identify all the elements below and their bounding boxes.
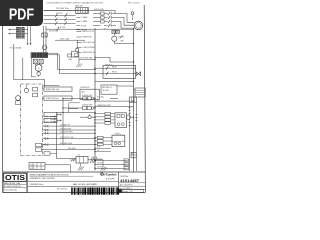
car wire row 2: [59, 73, 95, 74]
contactor feed wire 1: [93, 13, 101, 15]
field wire 112: [62, 112, 95, 113]
title divider 1: [28, 180, 119, 182]
eComfort logo: [100, 172, 116, 176]
svg-text:MGR BL MGR: MGR BL MGR: [94, 9, 105, 11]
main switch label: [75, 4, 83, 7]
svg-text:WIRING DIAGRAM FOR MICROTEC MT: WIRING DIAGRAM FOR MICROTEC MT3133: [30, 173, 69, 176]
wire row 86: [117, 85, 134, 87]
svg-text:HL2: HL2: [97, 99, 100, 101]
svg-text:SPARE WIRE GRP 1: SPARE WIRE GRP 1: [97, 104, 111, 107]
tacho generator: [37, 72, 41, 76]
machine fuse FM2: [39, 59, 43, 64]
drive input 63: [94, 119, 115, 122]
terminal strip labels TB1: [77, 12, 88, 31]
unit row drawn: [119, 189, 144, 193]
trunk terminal ticks: [129, 108, 138, 126]
drive input 61: [94, 112, 115, 115]
svg-text:L3 MAIN: L3 MAIN: [81, 20, 88, 23]
svg-text:OTIS ELEVATOR COMPANY WIRING D: OTIS ELEVATOR COMPANY WIRING DIAGRAM MT3…: [46, 2, 104, 5]
fuse F2: [55, 18, 57, 22]
controller row PB: [94, 66, 135, 70]
machine wires: [32, 58, 42, 77]
governor GOV: [15, 96, 20, 105]
svg-text:PE GND: PE GND: [81, 29, 88, 31]
PDF badge: [0, 0, 43, 26]
drive output device: [126, 115, 134, 119]
supply label 3PH 380V 50Hz: [56, 8, 69, 10]
cabinet contact block: [33, 87, 38, 96]
brake feed wire: [113, 25, 117, 27]
svg-text:PDF: PDF: [9, 7, 34, 24]
unit no label: [120, 176, 129, 178]
svg-text:OTIS: OTIS: [5, 173, 25, 182]
svg-text:TG: TG: [78, 154, 81, 156]
brake wires: [114, 41, 134, 44]
unit divider b: [119, 185, 146, 187]
svg-text:6 STOPS: 6 STOPS: [106, 178, 115, 180]
routing wire A: [14, 44, 45, 87]
brake coil BK: [112, 33, 117, 41]
svg-text:53 CPI: 53 CPI: [97, 167, 102, 169]
svg-text:TRV-L LOAD: TRV-L LOAD: [60, 37, 70, 40]
cabinet tap DW: [44, 116, 56, 119]
hall wire row a: [97, 96, 118, 99]
stops text: [106, 178, 115, 180]
door wire DC: [94, 140, 112, 143]
svg-text:DCL DOOR CLOSE: DCL DOOR CLOSE: [60, 137, 73, 139]
overload OL1: [101, 12, 105, 15]
transformer feed wires: [27, 26, 31, 45]
svg-text:Q1: Q1: [66, 13, 68, 15]
svg-text:COL CAR TOP: COL CAR TOP: [60, 123, 70, 126]
svg-text:SPARE WIRE GP: SPARE WIRE GP: [83, 51, 96, 54]
tacho input slashes: [70, 158, 76, 161]
routing wire B: [22, 58, 24, 80]
step wire: [94, 57, 134, 63]
aux relay box K3: [44, 118, 61, 122]
aux supply wire: [46, 26, 134, 31]
svg-text:MRO CAR LIGHT: MRO CAR LIGHT: [83, 41, 96, 44]
transformer TR primary: [16, 27, 19, 38]
svg-text:LOAD W SENSE: LOAD W SENSE: [83, 46, 95, 49]
cabinet tap TCI: [44, 118, 56, 121]
fuse F1: [55, 14, 57, 18]
svg-text:ARD: ARD: [82, 91, 86, 94]
unit row ann: [120, 184, 133, 187]
relay group D: [63, 103, 96, 109]
OTIS logo box: [4, 173, 27, 181]
hoist motor M: [134, 21, 143, 30]
svg-text:L/TERM BOX: L/TERM BOX: [80, 87, 91, 89]
drive indicators: [117, 123, 124, 126]
brake switch: [118, 35, 124, 38]
svg-text:MAIN SW: MAIN SW: [75, 4, 83, 7]
machine fuse FM1: [33, 59, 37, 64]
cabinet tap GNT: [44, 121, 56, 124]
hall wire row c: [94, 104, 133, 108]
drive input 64: [94, 122, 115, 125]
contactor aux labels: [104, 28, 108, 30]
svg-text:e*Comfort: e*Comfort: [103, 172, 116, 176]
wire to machine room box: [134, 89, 136, 91]
svg-text:DOB: DOB: [97, 147, 100, 149]
svg-text:TR 100 (5kVA): TR 100 (5kVA): [10, 47, 22, 50]
fuse labels: [56, 13, 68, 15]
svg-text:SHT 1/14457: SHT 1/14457: [128, 3, 141, 5]
car light lamp: [76, 40, 79, 51]
cabinet end relay: [44, 152, 57, 155]
brake rectifier BR1: [112, 29, 115, 33]
junction table wire: [45, 165, 70, 172]
cabinet relay K4: [36, 143, 45, 146]
OTIS address lines: [4, 181, 27, 192]
svg-text:L1 MAIN: L1 MAIN: [81, 12, 88, 15]
svg-text:PB UP: PB UP: [112, 66, 117, 68]
contactor contact 2: [104, 16, 112, 20]
contactor contact 4: [104, 24, 112, 28]
svg-text:51 CLT: 51 CLT: [97, 159, 102, 161]
svg-text:1 2 3 4: 1 2 3 4: [30, 165, 34, 167]
svg-text:SPARE GRP: SPARE GRP: [83, 36, 92, 39]
ground symbol 1: [101, 166, 107, 171]
door motor lamps: [114, 142, 120, 145]
mccb label: [49, 30, 59, 33]
door wire DO: [94, 136, 112, 139]
brake rectifier BR2: [116, 29, 119, 33]
travelling cable wire 1: [42, 123, 95, 127]
svg-text:Drawn : 1/17: Drawn : 1/17: [123, 190, 133, 193]
svg-text:U RELAY GRP: U RELAY GRP: [82, 94, 92, 97]
hall wire row b: [94, 99, 134, 102]
safety chain box: [101, 85, 117, 94]
field bus 2: [57, 112, 63, 158]
svg-text:R.S.Q. (30.11.05): R.S.Q. (30.11.05): [4, 190, 17, 192]
svg-text:OPERATION : DELL DUPLEX: OPERATION : DELL DUPLEX: [30, 177, 56, 180]
svg-text:D RELAY GRP: D RELAY GRP: [82, 103, 92, 106]
unit divider a: [119, 182, 146, 184]
cabinet relay K5: [36, 148, 42, 151]
ammeter A: [42, 45, 47, 50]
svg-text:START RES 2x40: START RES 2x40: [46, 97, 59, 100]
drive input 62: [94, 116, 115, 119]
junction table: [29, 163, 45, 170]
contactor linkage: [111, 12, 113, 27]
wire row 82: [95, 81, 134, 82]
svg-text:41014457: 41014457: [120, 178, 140, 183]
svg-text:OVERSIZE 54x/x: OVERSIZE 54x/x: [30, 184, 44, 186]
travelling cable wire 4: [42, 137, 95, 140]
terminal labels TB2: [77, 31, 96, 54]
svg-text:41 DW: 41 DW: [44, 116, 49, 118]
resistor bank R1: [42, 87, 72, 91]
title text line 1: [30, 173, 94, 176]
car wire CPI: [94, 167, 127, 169]
car wire CLT: [94, 159, 127, 161]
svg-text:MRO SAF CH: MRO SAF CH: [102, 86, 111, 89]
transformer TR core: [19, 27, 22, 39]
title block top line: [3, 171, 146, 173]
svg-text:F1 F2 F3: F1 F2 F3: [56, 13, 63, 15]
cabinet link wire: [42, 85, 59, 87]
car wire CFN: [94, 163, 127, 165]
circuit breaker MCCB: [42, 33, 47, 37]
door aux row 2: [94, 150, 111, 153]
controller row PB2: [94, 72, 135, 76]
ground symbol 2: [78, 163, 84, 170]
right riser bus: [133, 30, 135, 172]
overload OL2: [101, 16, 105, 19]
tacho out wire: [88, 160, 103, 166]
svg-text:GND SHLD: GND SHLD: [68, 148, 77, 150]
svg-text:ATC MT3133: ATC MT3133: [57, 188, 67, 191]
travelling cable wire 3: [42, 132, 95, 135]
contactor contact 1: [104, 12, 112, 16]
cabinet relay K1: [24, 84, 28, 93]
page frame right border: [144, 5, 145, 193]
controller label: [105, 65, 113, 67]
svg-text:L2 MAIN: L2 MAIN: [81, 16, 88, 19]
field bus 1: [62, 98, 63, 145]
svg-text:42 TCI: 42 TCI: [44, 119, 49, 121]
drive unit box: [115, 113, 127, 128]
load wire: [55, 37, 85, 40]
motor wire T1: [113, 14, 135, 23]
riser top wire: [89, 11, 116, 14]
machine room box: [135, 88, 145, 97]
door operator box: [112, 134, 125, 147]
terminal box label: [80, 87, 91, 89]
title block divider OTIS: [27, 172, 29, 193]
junction riser: [48, 53, 60, 73]
mt text: [57, 188, 67, 191]
ARD box: [80, 89, 99, 100]
main switch box: [76, 8, 89, 14]
svg-text:HALL DOORS : AUTOMATIC: HALL DOORS : AUTOMATIC: [73, 183, 98, 186]
svg-text:52 CFN: 52 CFN: [97, 163, 102, 165]
contactor feed wire 2: [93, 17, 101, 19]
unit number: [120, 178, 140, 183]
disconnect switch S1: [65, 14, 67, 18]
page frame left border: [2, 5, 4, 193]
alarm bell: [136, 72, 141, 76]
machine terminal strip: [31, 53, 48, 58]
unit divider c: [119, 188, 146, 190]
phase wire L3: [44, 22, 76, 24]
svg-text:HL1 CALL: HL1 CALL: [97, 96, 104, 99]
machine motor MG: [35, 64, 42, 71]
svg-text:AUX 220V: AUX 220V: [58, 26, 66, 29]
transformer primary leads: [9, 29, 17, 34]
hall riser bus: [94, 30, 96, 171]
fuse F3: [55, 22, 57, 26]
hall doors text: [73, 183, 98, 186]
overload OL3: [101, 20, 105, 23]
phase wire L2: [44, 18, 76, 20]
controller outline: [103, 65, 136, 78]
main supply bus: [44, 10, 89, 12]
transformer TR secondary: [22, 27, 25, 38]
svg-text:N LINE: N LINE: [81, 25, 87, 27]
relay group U: [63, 94, 96, 100]
svg-text:CAB: CAB: [69, 58, 72, 61]
feed bracket: [69, 103, 80, 113]
tacho box TG: [76, 154, 88, 163]
svg-text:MRO DOOR OP: MRO DOOR OP: [83, 31, 95, 33]
svg-text:43 GNT: 43 GNT: [44, 121, 49, 123]
svg-text:BRK: BRK: [121, 41, 124, 43]
heat cab fuse: [68, 51, 96, 67]
motor wire T2: [113, 18, 135, 26]
controller cabinet boundary: [21, 84, 43, 156]
resistor bank R2: [42, 96, 72, 100]
svg-text:BRAKE RES 2x60: BRAKE RES 2x60: [46, 88, 59, 91]
OTIS logo text: [5, 173, 25, 182]
svg-text:TBX GRP: TBX GRP: [102, 90, 109, 92]
ground wire row: [42, 148, 96, 151]
car trunk box: [129, 97, 136, 102]
svg-text:MADE (MODEL OHA): MADE (MODEL OHA): [4, 182, 21, 185]
svg-text:5 6 7 8: 5 6 7 8: [30, 168, 34, 170]
disconnect switch S2: [65, 18, 67, 22]
brake label: [121, 41, 124, 43]
travelling cable wire 2: [42, 127, 95, 131]
transformer label: [10, 47, 22, 50]
tacho wire: [57, 158, 76, 160]
door wire DZ: [94, 143, 112, 146]
contactor feed wire 3: [93, 21, 101, 23]
svg-text:G: G: [38, 68, 40, 70]
feeder wires: [43, 26, 46, 53]
thermistor sensor: [131, 12, 134, 20]
title text line 2: [30, 177, 56, 180]
svg-text:DOL DOOR OPEN: DOL DOOR OPEN: [60, 132, 73, 134]
door operator label: [116, 133, 121, 135]
title divider 2: [28, 185, 119, 187]
svg-text:SGS SAFE EDGE: SGS SAFE EDGE: [60, 142, 72, 145]
car wire row 1: [57, 69, 95, 70]
barcode: [71, 188, 119, 195]
svg-text:SE: SE: [97, 150, 99, 152]
svg-text:CPL CAR LIGHT: CPL CAR LIGHT: [60, 127, 71, 130]
contactor contact 3: [104, 20, 112, 24]
motor wire T3: [113, 22, 135, 29]
car riser pair 2: [135, 102, 137, 171]
travelling cable wire 5: [42, 142, 95, 146]
oversize text: [30, 184, 44, 186]
position indicator PI: [131, 152, 136, 157]
title block divider unit: [118, 172, 120, 193]
shield hatch: [91, 157, 97, 163]
aux relay box K2: [44, 112, 61, 116]
svg-text:3PH 380V 50Hz: 3PH 380V 50Hz: [56, 8, 69, 10]
contactor feed wire 4: [93, 25, 101, 27]
door aux row 1: [94, 147, 111, 150]
svg-text:INSP BOX: INSP BOX: [105, 65, 113, 67]
disconnect switch S3: [65, 22, 67, 26]
car station boxes: [124, 159, 129, 170]
svg-text:MRO HEAT CAB: MRO HEAT CAB: [81, 57, 93, 60]
svg-text:BP 40000 220/240 30J: BP 40000 220/240 30J: [4, 186, 21, 188]
phase wire L1: [44, 15, 76, 17]
transformer secondary leads: [24, 30, 28, 34]
unit row scn: [120, 188, 132, 190]
contactor row labels: [94, 9, 105, 11]
sheet header text: [46, 2, 141, 5]
safety relay SR: [80, 114, 96, 119]
svg-text:PB DN: PB DN: [112, 72, 117, 74]
title block bottom line: [3, 192, 146, 194]
car riser pair 1: [129, 102, 131, 171]
